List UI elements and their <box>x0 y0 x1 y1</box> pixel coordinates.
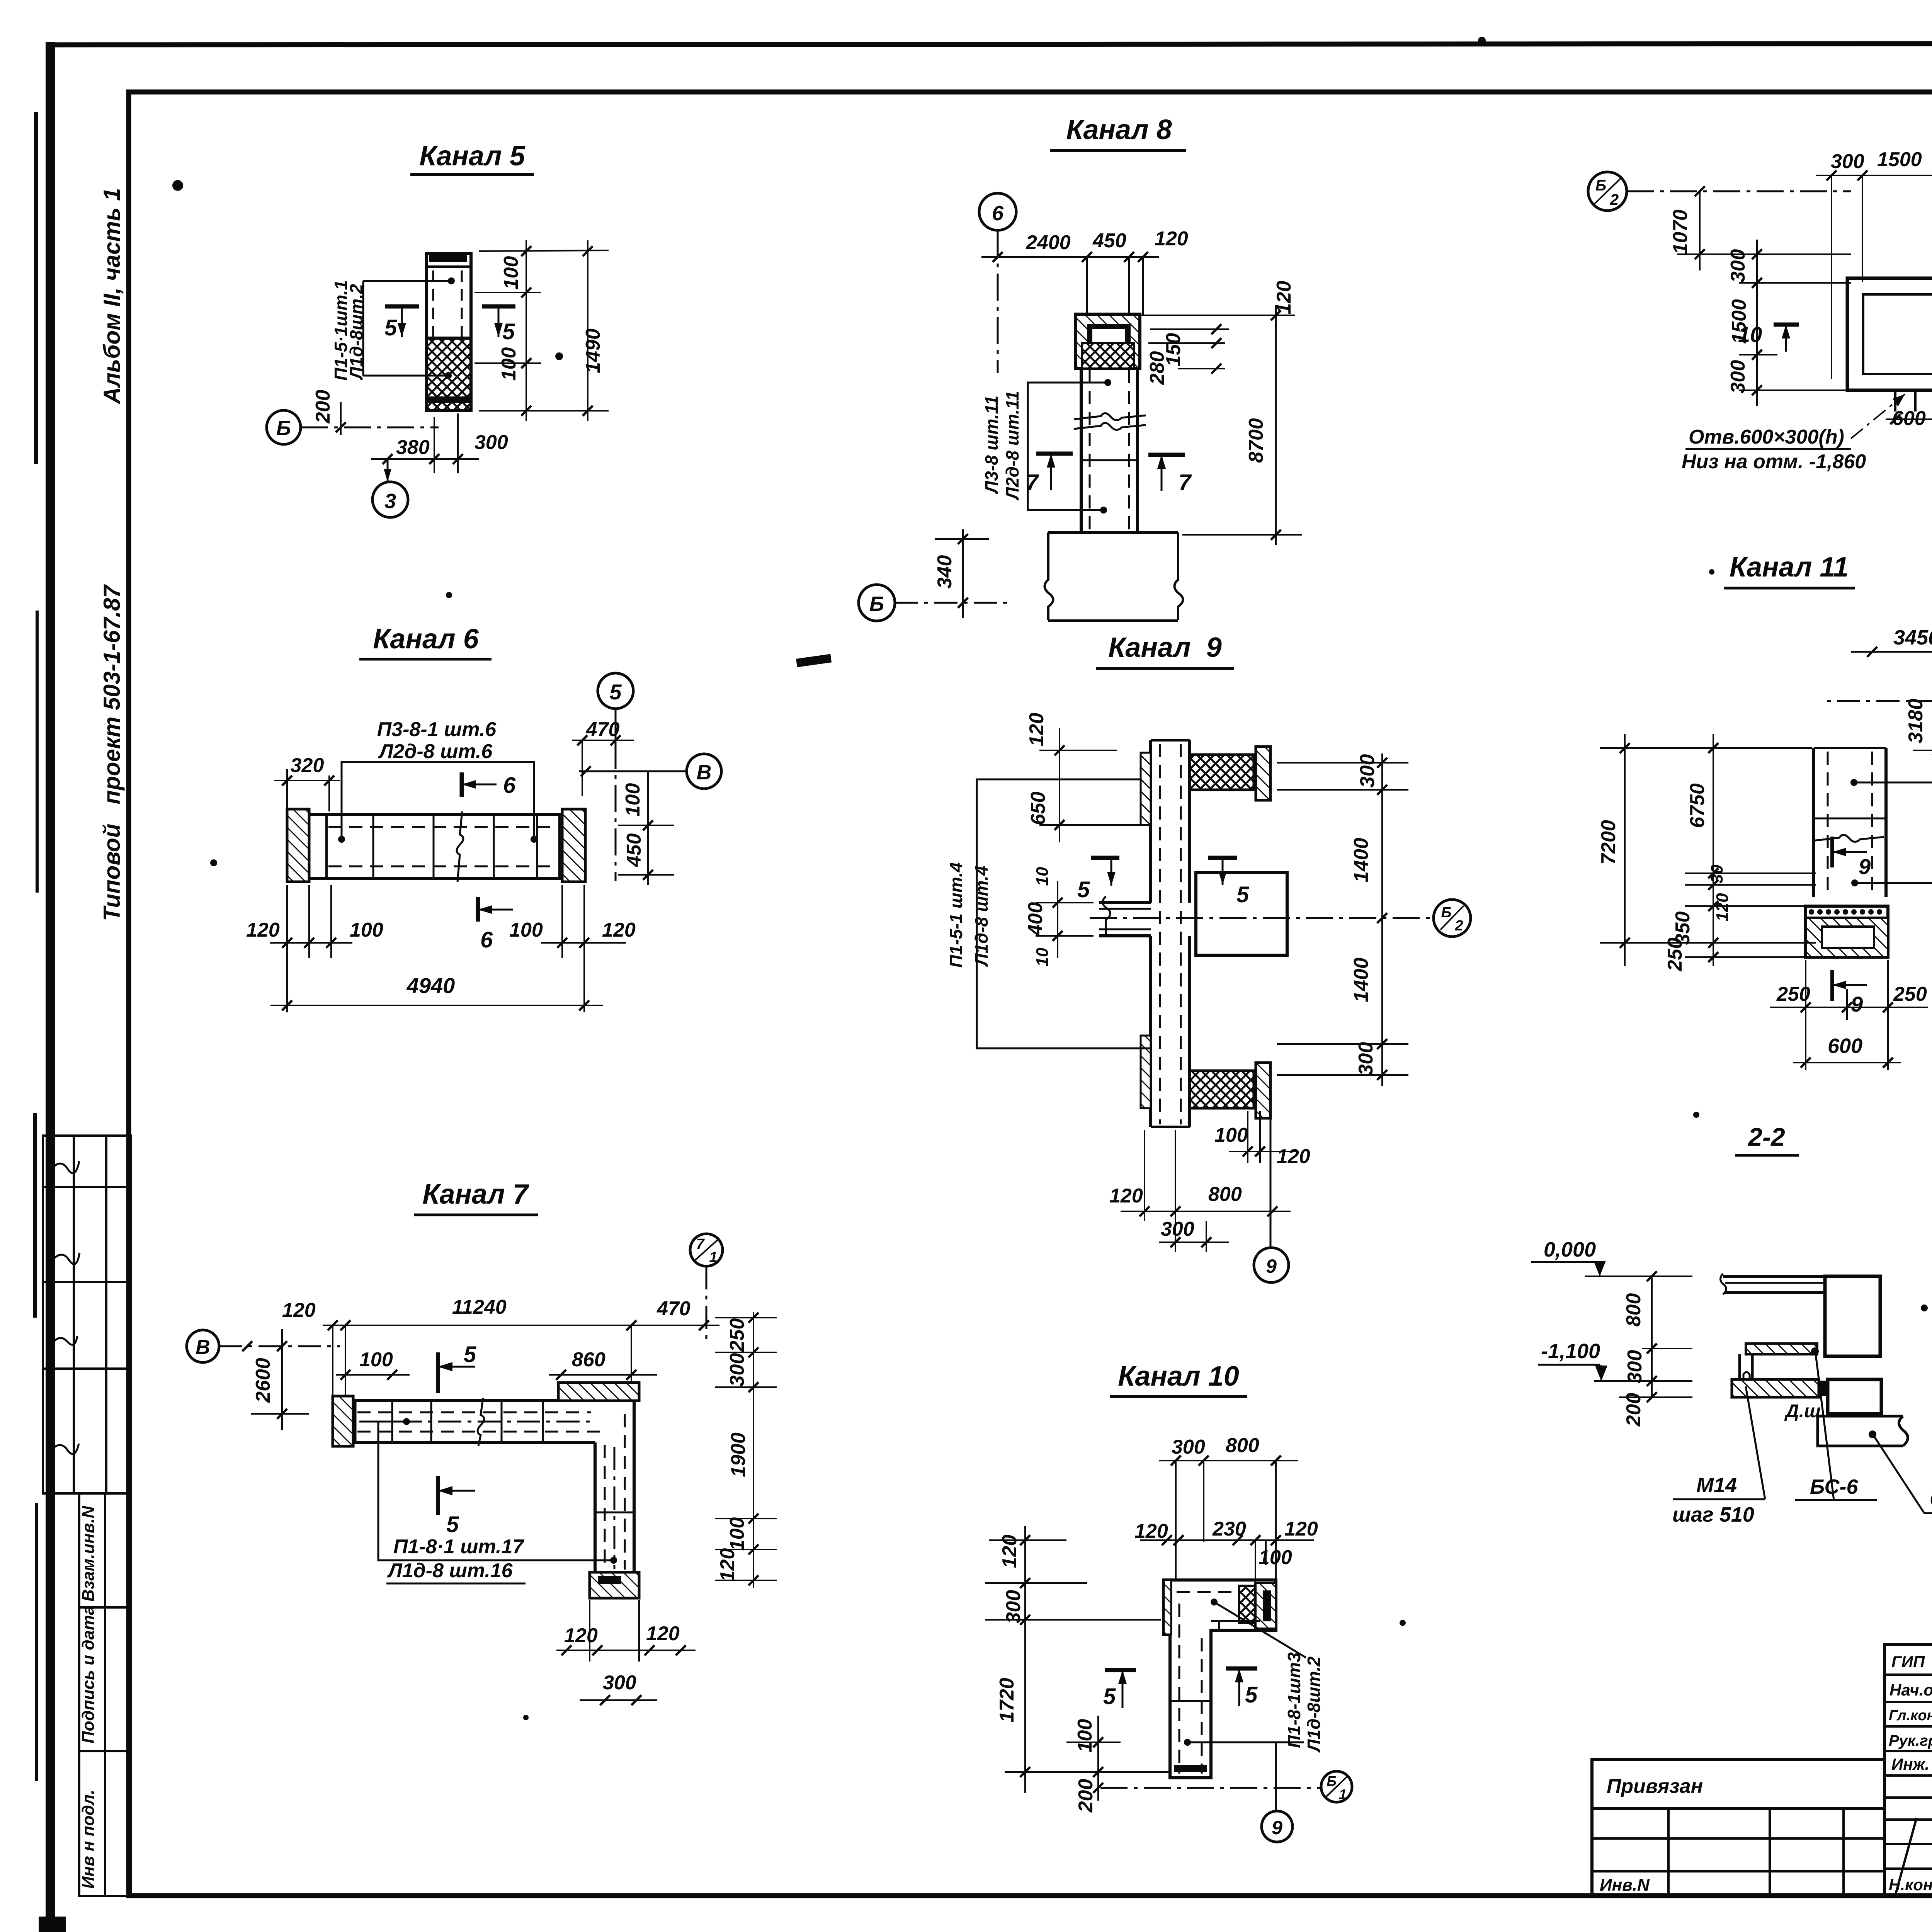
dim 340 <box>962 529 964 618</box>
axis B/1 circle <box>1100 1787 1322 1789</box>
svg-text:300: 300 <box>1831 150 1864 173</box>
svg-text:300: 300 <box>1624 1350 1646 1384</box>
svg-text:100: 100 <box>509 919 543 941</box>
channel verticals <box>1080 369 1083 532</box>
lower hatched slab <box>1732 1379 1819 1397</box>
label boxes: Vzam.inv.N / Podpis i data / Inv N podl. <box>79 1493 131 1896</box>
svg-text:Канал 8: Канал 8 <box>1066 114 1172 145</box>
svg-text:7: 7 <box>696 1236 705 1252</box>
svg-text:5: 5 <box>502 319 515 344</box>
svg-text:1400: 1400 <box>1350 957 1372 1002</box>
drawing: Kanal 7 channel plan <box>187 1179 777 1705</box>
svg-text:120: 120 <box>246 919 280 941</box>
svg-text:3180: 3180 <box>1905 699 1927 743</box>
right box texts <box>1600 1663 1932 1895</box>
svg-text:120: 120 <box>1277 1145 1310 1168</box>
bottom dims 120 120 300 <box>556 1600 696 1700</box>
svg-text:1400: 1400 <box>1350 838 1372 883</box>
section marks 7 <box>1036 452 1073 456</box>
axis circle 5 top right <box>598 673 633 709</box>
svg-text:Канал 10: Канал 10 <box>1118 1361 1239 1392</box>
svg-text:100: 100 <box>1259 1546 1292 1569</box>
mid hatched slab <box>1746 1344 1817 1354</box>
svg-text:Д.ш.: Д.ш. <box>1784 1401 1826 1422</box>
svg-text:1490: 1490 <box>582 328 604 373</box>
svg-text:9: 9 <box>1859 854 1871 879</box>
drawing: Kanal 8 channel section <box>859 114 1302 621</box>
svg-text:4940: 4940 <box>406 973 455 998</box>
left box <box>1847 278 1932 390</box>
svg-text:6: 6 <box>503 773 516 798</box>
channel body horizontal <box>309 813 562 816</box>
svg-text:Канал 6: Канал 6 <box>373 624 479 655</box>
svg-text:860: 860 <box>572 1349 605 1371</box>
svg-text:250: 250 <box>726 1318 748 1352</box>
drawing: Kanal 6 channel plan <box>246 624 721 1012</box>
svg-text:800: 800 <box>1226 1434 1259 1457</box>
vertical leg <box>594 1442 597 1572</box>
dims 800 300 200 <box>1651 1276 1653 1397</box>
left dims 7200 6750 30 120 350 250 <box>1600 734 1816 966</box>
axis line to B circle <box>579 770 687 772</box>
svg-text:Канал 5: Канал 5 <box>419 141 526 172</box>
channel body L-shape <box>333 1399 558 1402</box>
right dims 300 1400 1400 300 <box>1277 753 1408 1086</box>
svg-text:Л1д-8шт.2: Л1д-8шт.2 <box>346 284 366 380</box>
svg-text:-1,100: -1,100 <box>1541 1340 1600 1363</box>
scribbles in signature boxes <box>49 1161 80 1454</box>
svg-text:Б: Б <box>869 592 884 616</box>
svg-text:Привязан: Привязан <box>1607 1775 1703 1798</box>
svg-text:1: 1 <box>709 1249 717 1265</box>
svg-text:2-2: 2-2 <box>1747 1122 1785 1151</box>
section mark 5 left <box>385 304 419 309</box>
svg-text:М14: М14 <box>1696 1474 1737 1497</box>
circle 9 <box>1275 1742 1277 1811</box>
svg-text:Л3-8 шт.11: Л3-8 шт.11 <box>981 396 1002 495</box>
second dims 120 230 120 100 <box>1140 1539 1314 1541</box>
svg-text:100: 100 <box>498 347 520 381</box>
svg-text:3450: 3450 <box>1893 626 1932 649</box>
svg-text:300: 300 <box>1356 754 1379 788</box>
personnel table lines <box>1884 1645 1932 1896</box>
svg-text:120: 120 <box>1273 281 1295 315</box>
left margin stamp column <box>43 188 131 1896</box>
vertical channel <box>1149 740 1152 903</box>
svg-text:470: 470 <box>656 1298 690 1320</box>
svg-text:Л1д-8 шт.16: Л1д-8 шт.16 <box>387 1560 513 1582</box>
svg-text:5: 5 <box>1236 882 1249 907</box>
svg-text:Подпись и дата: Подпись и дата <box>79 1605 98 1743</box>
personnel labels <box>1889 1653 1932 1894</box>
svg-text:100: 100 <box>1214 1124 1248 1146</box>
section mark 10 left <box>1774 323 1799 327</box>
axis circle 3 <box>387 459 389 482</box>
svg-text:300: 300 <box>1727 249 1749 283</box>
svg-text:120: 120 <box>602 919 636 941</box>
bottom right flange xhatch <box>1190 1071 1254 1108</box>
right wall upper <box>1825 1276 1880 1356</box>
dim extension lines right <box>474 240 609 421</box>
drawing: Kanal 11 channel plan <box>1597 552 1932 1070</box>
axis circle V <box>187 1330 219 1362</box>
svg-text:5: 5 <box>1077 877 1090 902</box>
svg-text:300: 300 <box>1002 1590 1025 1624</box>
leader and rotated labels <box>1211 1599 1218 1605</box>
title block (stamp) <box>1592 1644 1932 1932</box>
svg-text:120: 120 <box>646 1622 680 1645</box>
section mark 5 bottom <box>436 1476 440 1515</box>
stray dots <box>172 180 183 191</box>
svg-text:Н.контр.: Н.контр. <box>1889 1876 1932 1894</box>
top right flange xhatch <box>1190 755 1254 790</box>
break mark <box>457 811 463 882</box>
section mark 5 top <box>436 1352 440 1393</box>
svg-text:11240: 11240 <box>452 1296 507 1318</box>
svg-text:2: 2 <box>1454 918 1463 934</box>
left dims 120 300 1720 100 200 <box>985 1526 1169 1801</box>
svg-text:400: 400 <box>1024 902 1047 936</box>
svg-text:7: 7 <box>1179 470 1192 495</box>
svg-text:Б: Б <box>1327 1773 1337 1789</box>
svg-text:8700: 8700 <box>1245 418 1267 463</box>
svg-text:300: 300 <box>1355 1042 1377 1076</box>
main stamp outline <box>1884 1645 1932 1896</box>
bottom dims 120 100 / 100 120 <box>270 885 626 1012</box>
svg-text:100: 100 <box>622 783 644 817</box>
section marks 9 <box>1830 837 1834 867</box>
mid horizontal pipe <box>1099 901 1151 904</box>
svg-text:Инв н подл.: Инв н подл. <box>79 1790 98 1889</box>
svg-text:300: 300 <box>1727 360 1749 394</box>
svg-text:П1-8·1 шт.17: П1-8·1 шт.17 <box>393 1536 524 1558</box>
bottom dims 250 250 600 <box>1770 960 1928 1070</box>
svg-text:Л2д-8 шт.6: Л2д-8 шт.6 <box>378 740 493 763</box>
floor slab <box>1723 1275 1828 1278</box>
svg-text:800: 800 <box>1622 1293 1645 1327</box>
svg-text:100: 100 <box>500 256 522 290</box>
svg-text:320: 320 <box>291 754 324 777</box>
svg-text:300: 300 <box>603 1672 636 1694</box>
svg-text:5: 5 <box>464 1342 476 1367</box>
bottom dims <box>1121 1111 1298 1252</box>
svg-text:Б: Б <box>1595 177 1606 194</box>
svg-text:150: 150 <box>1162 333 1185 367</box>
svg-text:250: 250 <box>1893 983 1927 1005</box>
svg-text:Л1д-8шт.2: Л1д-8шт.2 <box>1304 1656 1324 1753</box>
svg-text:300: 300 <box>726 1353 748 1387</box>
svg-text:Л2д-8 шт.11: Л2д-8 шт.11 <box>1002 391 1022 500</box>
svg-text:2400: 2400 <box>1026 231 1071 254</box>
axis B circle <box>859 585 895 621</box>
svg-text:120: 120 <box>564 1624 598 1647</box>
svg-text:2600: 2600 <box>252 1358 274 1403</box>
svg-text:1900: 1900 <box>727 1432 750 1477</box>
svg-text:Взам.инв.N: Взам.инв.N <box>79 1505 98 1602</box>
outer top line <box>48 43 1932 45</box>
svg-text:100: 100 <box>726 1517 748 1551</box>
svg-text:1500: 1500 <box>1877 148 1922 171</box>
svg-text:120: 120 <box>1284 1518 1318 1540</box>
bottom foundation <box>1048 531 1178 534</box>
section mark 6 top <box>460 772 464 797</box>
svg-text:Нач.отд.: Нач.отд. <box>1889 1681 1932 1699</box>
svg-text:600: 600 <box>1828 1034 1862 1058</box>
section mark 6 bottom <box>476 897 480 922</box>
svg-text:6: 6 <box>480 927 493 952</box>
svg-text:5: 5 <box>609 680 622 704</box>
left vertical dims 1070 300 1500 300 <box>1677 191 1851 406</box>
drawing: section 2-2 <box>1531 1122 1932 1538</box>
signatures <box>1895 1644 1932 1932</box>
svg-text:800: 800 <box>1208 1183 1242 1206</box>
axis line B/2 <box>1090 917 1430 919</box>
svg-text:Канал 11: Канал 11 <box>1730 552 1849 583</box>
svg-text:1: 1 <box>1339 1786 1347 1802</box>
svg-text:5: 5 <box>446 1512 459 1537</box>
left vertical piece with anchor <box>1740 1354 1752 1384</box>
svg-text:120: 120 <box>1134 1520 1168 1543</box>
svg-text:шаг 510: шаг 510 <box>1672 1503 1754 1526</box>
section marks 5 <box>1105 1668 1136 1672</box>
drawing: Kanal 9 channel plan <box>946 632 1471 1282</box>
svg-text:Инв.N: Инв.N <box>1600 1876 1650 1895</box>
svg-text:30: 30 <box>1708 864 1726 883</box>
svg-text:Л1д-8 шт.4: Л1д-8 шт.4 <box>971 866 992 967</box>
left binding black band <box>46 42 55 1932</box>
break mark <box>1074 413 1146 420</box>
channel body <box>427 253 471 411</box>
top dims 300 800 <box>1159 1460 1298 1461</box>
top right hatched cap <box>558 1383 639 1401</box>
axis circle 6 <box>979 193 1016 230</box>
section marks 5 <box>1091 856 1119 860</box>
channel verticals <box>1812 748 1815 897</box>
svg-text:Низ на отм. -1,860: Низ на отм. -1,860 <box>1682 451 1866 473</box>
svg-text:Б: Б <box>1441 905 1452 921</box>
svg-text:5: 5 <box>1245 1682 1258 1708</box>
svg-text:9: 9 <box>1851 992 1863 1016</box>
svg-text:Рук.груп.: Рук.груп. <box>1889 1732 1932 1749</box>
svg-text:200: 200 <box>1622 1393 1645 1427</box>
left wall strips <box>1141 753 1151 825</box>
svg-text:ГИП: ГИП <box>1891 1653 1925 1671</box>
right side dims 250 300 1900 100 120 <box>715 1312 777 1588</box>
svg-text:450: 450 <box>1092 230 1126 252</box>
axis B circle <box>267 410 301 444</box>
lower right wall <box>1828 1379 1881 1414</box>
section mark 5 right <box>482 304 515 309</box>
svg-text:9: 9 <box>1266 1255 1277 1277</box>
svg-text:470: 470 <box>586 718 620 741</box>
foundation <box>1818 1416 1908 1446</box>
svg-text:120: 120 <box>1026 713 1048 747</box>
svg-text:Отв.600×300(h): Отв.600×300(h) <box>1689 426 1844 448</box>
right dims 120 280 150 8700 <box>1140 305 1302 545</box>
pit box <box>1196 872 1287 955</box>
bottom cap hatched <box>590 1572 639 1598</box>
top dims 300 1500 400 <box>1816 175 1932 176</box>
svg-text:5: 5 <box>384 315 397 340</box>
svg-text:7200: 7200 <box>1597 820 1620 865</box>
svg-text:100: 100 <box>350 919 383 941</box>
svg-text:100: 100 <box>359 1349 393 1371</box>
drawing: Kanal 5 channel plan <box>267 141 609 517</box>
svg-text:Канал 7: Канал 7 <box>422 1179 529 1210</box>
svg-text:2: 2 <box>1610 191 1619 208</box>
svg-text:340: 340 <box>934 555 956 589</box>
svg-text:Смотровая: Смотровая <box>1930 1488 1932 1511</box>
axis circle B/2 left <box>1588 172 1627 211</box>
svg-text:120: 120 <box>1109 1185 1143 1207</box>
svg-text:В: В <box>196 1336 210 1359</box>
svg-text:В: В <box>697 761 712 784</box>
svg-text:120: 120 <box>1713 893 1732 922</box>
svg-text:6750: 6750 <box>1686 783 1709 828</box>
drawing: Kanal 12 channel plan <box>1588 115 1932 534</box>
svg-text:Типовой проект 503-1-67.87: Типовой проект 503-1-67.87 <box>99 584 125 921</box>
signature boxes upper <box>43 1136 131 1493</box>
top dims 2400 450 120 <box>981 256 1159 258</box>
right vertical dims 100 450 <box>647 771 649 885</box>
dim 2600 <box>281 1329 283 1430</box>
svg-text:380: 380 <box>396 436 430 459</box>
svg-text:100: 100 <box>1074 1719 1096 1753</box>
svg-text:1720: 1720 <box>996 1678 1018 1723</box>
left attach table <box>1592 1759 1884 1896</box>
svg-text:120: 120 <box>998 1535 1021 1568</box>
svg-text:300: 300 <box>1161 1218 1194 1240</box>
axis circle 7/1 <box>690 1234 723 1266</box>
svg-text:10: 10 <box>1033 947 1052 966</box>
sub dim 100 / 860 <box>336 1374 410 1376</box>
channel body mirrored-G <box>1164 1580 1276 1778</box>
bottom-left corner blob <box>39 1917 66 1932</box>
svg-text:650: 650 <box>1027 792 1049 825</box>
svg-text:120: 120 <box>716 1548 739 1582</box>
mid-left dims 10 400 10 <box>1057 881 1058 958</box>
svg-text:Канал 9: Канал 9 <box>1108 632 1222 663</box>
svg-text:9: 9 <box>1272 1817 1282 1838</box>
svg-text:Гл.констр: Гл.констр <box>1889 1708 1932 1724</box>
svg-text:3: 3 <box>384 490 396 513</box>
svg-text:300: 300 <box>474 431 508 454</box>
svg-text:120: 120 <box>282 1299 316 1321</box>
svg-text:450: 450 <box>623 833 645 867</box>
svg-text:6: 6 <box>992 202 1004 225</box>
svg-text:Б: Б <box>276 417 291 440</box>
svg-text:П1-8-1шт3: П1-8-1шт3 <box>1284 1652 1304 1748</box>
svg-text:10: 10 <box>1033 867 1052 886</box>
svg-text:200: 200 <box>1075 1779 1097 1813</box>
svg-text:230: 230 <box>1212 1518 1246 1540</box>
svg-text:200: 200 <box>312 390 334 424</box>
left top dims 120 650 <box>1039 728 1140 842</box>
svg-text:120: 120 <box>1155 228 1188 250</box>
svg-text:Альбом II, часть 1: Альбом II, часть 1 <box>99 188 125 405</box>
svg-text:П3-8-1 шт.6: П3-8-1 шт.6 <box>377 718 497 741</box>
svg-text:250: 250 <box>1664 938 1686 972</box>
svg-text:1070: 1070 <box>1669 209 1692 254</box>
drawing: Kanal 10 channel plan <box>985 1361 1352 1842</box>
svg-text:П1-5-1 шт.4: П1-5-1 шт.4 <box>946 862 966 968</box>
svg-text:5: 5 <box>1103 1684 1116 1709</box>
svg-text:0,000: 0,000 <box>1544 1238 1596 1261</box>
svg-text:Инж.: Инж. <box>1891 1755 1929 1773</box>
bottom dim <box>371 413 479 473</box>
circle 9 <box>1270 1109 1272 1248</box>
top wall block with insulation <box>1076 314 1140 369</box>
leader bracket to labels <box>363 280 451 282</box>
foundation <box>1806 906 1888 957</box>
svg-text:10: 10 <box>1738 322 1762 347</box>
svg-text:250: 250 <box>1776 983 1810 1005</box>
top dim line 120 11240 470 <box>323 1325 719 1326</box>
svg-text:300: 300 <box>1172 1436 1205 1458</box>
ticks <box>521 246 593 416</box>
